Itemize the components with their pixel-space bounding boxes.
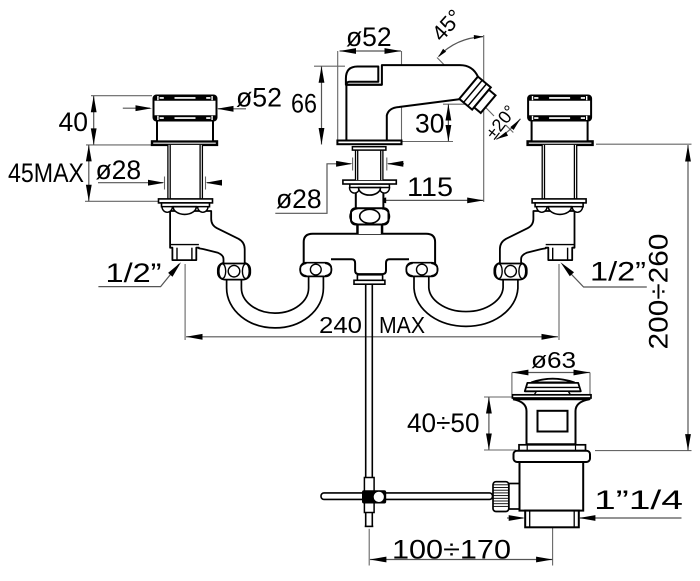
svg-text:ø52: ø52 (346, 22, 392, 52)
svg-text:100÷170: 100÷170 (392, 535, 511, 565)
svg-text:200÷260: 200÷260 (644, 234, 674, 350)
svg-text:40÷50: 40÷50 (407, 408, 480, 438)
svg-text:ø28: ø28 (276, 184, 322, 214)
svg-text:45MAX: 45MAX (8, 158, 84, 188)
svg-text:1”1/4: 1”1/4 (594, 485, 683, 515)
svg-text:1/2”: 1/2” (590, 257, 646, 287)
svg-text:ø63: ø63 (531, 347, 576, 373)
svg-text:30: 30 (415, 109, 444, 139)
svg-text:ø52: ø52 (236, 83, 282, 113)
svg-text:ø28: ø28 (96, 155, 142, 185)
svg-text:240: 240 (319, 312, 362, 338)
svg-text:115: 115 (407, 172, 453, 202)
svg-text:MAX: MAX (379, 312, 425, 338)
svg-text:1/2”: 1/2” (106, 258, 162, 288)
svg-text:66: 66 (291, 89, 317, 119)
svg-text:40: 40 (59, 107, 88, 137)
